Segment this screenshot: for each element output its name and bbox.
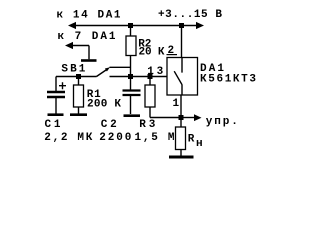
svg-text:к 14 DA1: к 14 DA1 (57, 10, 121, 22)
svg-text:2200: 2200 (99, 132, 131, 144)
svg-text:200 К: 200 К (87, 99, 121, 111)
svg-text:2: 2 (168, 45, 175, 57)
svg-text:1,5 М: 1,5 М (135, 132, 175, 144)
svg-text:SB1: SB1 (61, 64, 85, 76)
svg-text:R: R (188, 133, 195, 145)
svg-text:упр.: упр. (206, 116, 238, 128)
svg-text:н: н (196, 138, 203, 150)
svg-text:1: 1 (173, 98, 180, 110)
svg-text:+3...15 В: +3...15 В (158, 9, 222, 21)
svg-text:20 К: 20 К (139, 47, 165, 59)
